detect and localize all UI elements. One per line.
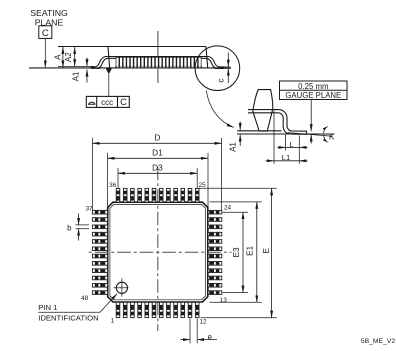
- svg-text:25: 25: [199, 182, 207, 189]
- svg-text:37: 37: [85, 206, 93, 213]
- svg-text:1: 1: [111, 317, 115, 324]
- pin 12 (bottom row): [195, 302, 199, 317]
- foot thickness extension lines: [224, 66, 231, 68]
- dimension D: [92, 134, 221, 211]
- pin 25 (top row): [195, 188, 199, 202]
- pin 7 (bottom row): [159, 302, 163, 317]
- pin 36 (top row): [116, 188, 120, 202]
- dimension K arcs: [324, 127, 328, 134]
- svg-text:36: 36: [109, 182, 117, 189]
- pin 24 (right row): [208, 210, 222, 214]
- svg-text:24: 24: [224, 205, 232, 212]
- dimension D1: [108, 149, 209, 215]
- svg-text:5B_ME_V2: 5B_ME_V2: [361, 338, 396, 345]
- pin 20 (right row): [208, 240, 222, 244]
- top view centerline horizontal: [89, 251, 232, 253]
- pin 34 (top row): [131, 188, 135, 202]
- svg-text:K: K: [329, 132, 335, 141]
- pin 45 (left row): [92, 269, 107, 273]
- svg-text:IDENTIFICATION: IDENTIFICATION: [38, 314, 99, 323]
- lead shoulder lines (parting): [105, 56, 208, 58]
- package body (top view): [108, 202, 208, 302]
- pin 31 (top row): [152, 188, 156, 202]
- pin 4 (bottom row): [138, 302, 142, 317]
- pin 2 (bottom row): [123, 302, 127, 317]
- pin 29 (top row): [167, 188, 171, 202]
- svg-text:12: 12: [200, 319, 208, 326]
- svg-text:D3: D3: [152, 164, 163, 173]
- dimension L: [278, 146, 286, 148]
- A2 bottom extension line: [58, 65, 94, 67]
- svg-text:ccc: ccc: [101, 98, 113, 107]
- svg-text:D: D: [154, 134, 160, 143]
- svg-text:e: e: [208, 332, 212, 341]
- svg-text:13: 13: [220, 297, 228, 304]
- pin 10 (bottom row): [181, 302, 185, 317]
- pin 41 (left row): [92, 240, 107, 244]
- pin 3 (bottom row): [131, 302, 135, 317]
- datum triangle: [106, 68, 112, 74]
- dimension c: [227, 53, 229, 67]
- gauge plane leader arrows: [310, 100, 312, 132]
- pin 28 (top row): [174, 188, 178, 202]
- body right face: [206, 47, 208, 69]
- pin 22 (right row): [208, 225, 222, 229]
- leader arc to gauge detail: [206, 90, 233, 127]
- svg-text:E1: E1: [246, 245, 255, 255]
- pin 17 (right row): [208, 262, 222, 266]
- pin 48 (left row): [92, 291, 107, 295]
- svg-text:A1: A1: [72, 71, 81, 81]
- seating plane line (side view): [29, 67, 231, 69]
- dimension A: [62, 47, 64, 68]
- svg-text:C: C: [42, 28, 49, 39]
- svg-text:GAUGE PLANE: GAUGE PLANE: [285, 91, 341, 100]
- lead profile (bent lead): [248, 110, 307, 135]
- dimension L1: [266, 160, 275, 162]
- dimension D3: [118, 164, 197, 188]
- pin 38 (left row): [92, 218, 107, 222]
- dimension b: [67, 214, 89, 241]
- svg-text:E: E: [262, 248, 271, 254]
- pin 26 (top row): [188, 188, 192, 202]
- pin 19 (right row): [208, 247, 222, 251]
- leader from C box to seating plane: [44, 38, 46, 67]
- pin 5 (bottom row): [145, 302, 149, 317]
- body left face: [108, 47, 110, 69]
- body edge cross-section blob: [253, 90, 273, 132]
- pin 16 (right row): [208, 269, 222, 273]
- dimension A1 (gauge detail): [239, 122, 241, 131]
- svg-text:A2: A2: [64, 52, 73, 62]
- package body top (side view): [58, 46, 206, 48]
- dimension A1 (side view): [86, 58, 88, 67]
- svg-text:48: 48: [81, 295, 89, 302]
- pin 37 (left row): [92, 210, 107, 214]
- K slope line: [288, 133, 333, 137]
- top view centerline vertical: [157, 166, 159, 331]
- svg-text:L1: L1: [282, 153, 290, 162]
- svg-text:A1: A1: [228, 142, 237, 152]
- pin 11 (bottom row): [188, 302, 192, 317]
- pin 1 identification circle: [113, 278, 128, 296]
- side-view lead comb: [116, 57, 202, 67]
- left lead (side view): [91, 57, 105, 69]
- pin 47 (left row): [92, 283, 107, 287]
- side view centerline: [157, 31, 159, 83]
- pin 39 (left row): [92, 225, 107, 229]
- L extension lines: [284, 135, 286, 151]
- pin 46 (left row): [92, 276, 107, 280]
- gauge plane callout box: [280, 81, 348, 100]
- dimension E3: [223, 212, 249, 292]
- pin 30 (top row): [159, 188, 163, 202]
- svg-text:A: A: [53, 54, 62, 60]
- dimension e: [181, 319, 218, 344]
- pin 32 (top row): [145, 188, 149, 202]
- flatness tolerance frame: (sym) ccc C: [86, 96, 129, 107]
- standoff line: [237, 130, 282, 132]
- pin 1 (bottom row): [116, 302, 120, 317]
- svg-text:E3: E3: [232, 247, 241, 257]
- pin 40 (left row): [92, 232, 107, 236]
- right lead (side view): [208, 57, 223, 69]
- svg-text:D1: D1: [152, 149, 163, 158]
- comb feet: [116, 67, 202, 68]
- dimension A2: [74, 47, 76, 66]
- svg-text:0.25 mm: 0.25 mm: [298, 82, 328, 91]
- pin 8 (bottom row): [167, 302, 171, 317]
- body inner edge: [110, 204, 206, 299]
- pin 9 (bottom row): [174, 302, 178, 317]
- pin 18 (right row): [208, 254, 222, 258]
- pin 42 (left row): [92, 247, 107, 251]
- pin 13 (right row): [208, 291, 222, 295]
- pin 27 (top row): [181, 188, 185, 202]
- pin 15 (right row): [208, 276, 222, 280]
- svg-text:L: L: [289, 140, 293, 149]
- svg-text:b: b: [67, 223, 72, 232]
- leader to pin1 circle: [38, 294, 117, 312]
- pin 6 (bottom row): [152, 302, 156, 317]
- svg-text:PIN 1: PIN 1: [38, 303, 57, 312]
- pin 43 (left row): [92, 254, 107, 258]
- pin 14 (right row): [208, 283, 222, 287]
- seating plane (gauge detail): [237, 133, 335, 135]
- dimension E: [198, 188, 277, 317]
- datum C box (seating plane): [39, 26, 52, 39]
- leader to ccc box: [108, 74, 110, 96]
- pin 33 (top row): [138, 188, 142, 202]
- dimension E1: [210, 202, 262, 302]
- svg-text:C: C: [120, 97, 127, 107]
- pin 23 (right row): [208, 218, 222, 222]
- pin 21 (right row): [208, 232, 222, 236]
- detail circle: [195, 46, 240, 91]
- svg-text:c: c: [216, 79, 225, 83]
- pin 35 (top row): [123, 188, 127, 202]
- pin 44 (left row): [92, 262, 107, 266]
